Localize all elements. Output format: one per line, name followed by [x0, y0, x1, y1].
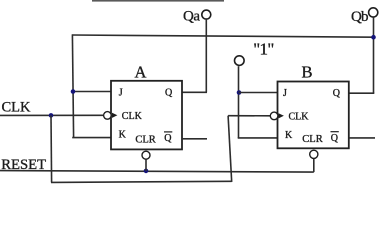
- wire: A J input: [73, 91, 111, 93]
- wire: A K input: [72, 137, 111, 139]
- terminal Qa circle: [202, 10, 211, 19]
- svg-text:CLK: CLK: [122, 111, 143, 122]
- bubble: A CLR: [142, 151, 150, 159]
- bubble: B CLR: [310, 150, 318, 158]
- svg-text:CLK: CLK: [289, 111, 310, 122]
- wire: "1" vertical: [238, 66, 240, 138]
- node: CLK branch junction: [49, 113, 54, 118]
- wire: B K input: [238, 137, 278, 139]
- svg-text:Qa: Qa: [183, 9, 200, 25]
- svg-text:Q: Q: [333, 88, 341, 99]
- svg-text:A: A: [135, 63, 147, 82]
- wire: CLK input line: [0, 114, 103, 116]
- wire: Qa vertical: [205, 20, 207, 93]
- wire: B J input: [239, 92, 278, 94]
- wire: B Q output: [349, 92, 375, 94]
- wire: A CLR vertical: [145, 159, 147, 171]
- clock triangle (B): [279, 113, 284, 118]
- top cropped bar: [92, 0, 224, 2]
- svg-text:CLR: CLR: [302, 134, 322, 145]
- svg-text:Q: Q: [331, 133, 339, 144]
- svg-text:J: J: [119, 88, 123, 99]
- wire: CLK branch vertical down: [50, 115, 53, 182]
- svg-text:B: B: [302, 63, 313, 82]
- wire: feedback vertical at left (x=73): [72, 34, 73, 137]
- svg-text:CLK: CLK: [2, 100, 32, 116]
- flip-flop U2 box B: [278, 82, 349, 149]
- wire: B CLK input line: [228, 115, 270, 117]
- wire: top feedback line from A.J/K column to Qb column: [72, 35, 373, 37]
- svg-text:Q: Q: [164, 133, 172, 144]
- wire: B CLR vertical: [313, 158, 315, 172]
- node: top feedback to Qb junction: [371, 35, 376, 40]
- svg-text:Q: Q: [165, 88, 173, 99]
- node: RESET to A CLR junction: [144, 169, 149, 174]
- svg-text:K: K: [285, 130, 293, 141]
- svg-text:K: K: [119, 129, 127, 140]
- bubble: A clock inversion: [104, 112, 112, 120]
- wire: CLK route vertical up to B clock: [228, 116, 232, 182]
- flip-flop U1 box A: [111, 81, 182, 150]
- svg-text:CLR: CLR: [135, 134, 155, 145]
- overbar for Qbar (A): [164, 131, 172, 133]
- wire: Qb vertical: [373, 17, 375, 93]
- node: "1" to B.J junction: [237, 90, 242, 95]
- node: feedback to A.J junction: [71, 89, 76, 94]
- overbar for Qbar (B): [331, 131, 339, 133]
- terminal Qb circle: [369, 8, 378, 17]
- wire: RESET line: [0, 171, 314, 173]
- bubble: B clock inversion: [270, 112, 278, 120]
- clock triangle (A): [112, 113, 117, 118]
- svg-text:Qb: Qb: [351, 9, 368, 25]
- terminal "1" circle: [235, 56, 245, 66]
- svg-text:J: J: [283, 88, 287, 99]
- wire: B Qbar stub: [349, 137, 375, 139]
- svg-text:"1": "1": [253, 40, 274, 59]
- wire: A Qbar stub: [182, 138, 207, 140]
- wire: A Q output: [182, 91, 207, 93]
- wire: CLK bottom route: [51, 181, 232, 182]
